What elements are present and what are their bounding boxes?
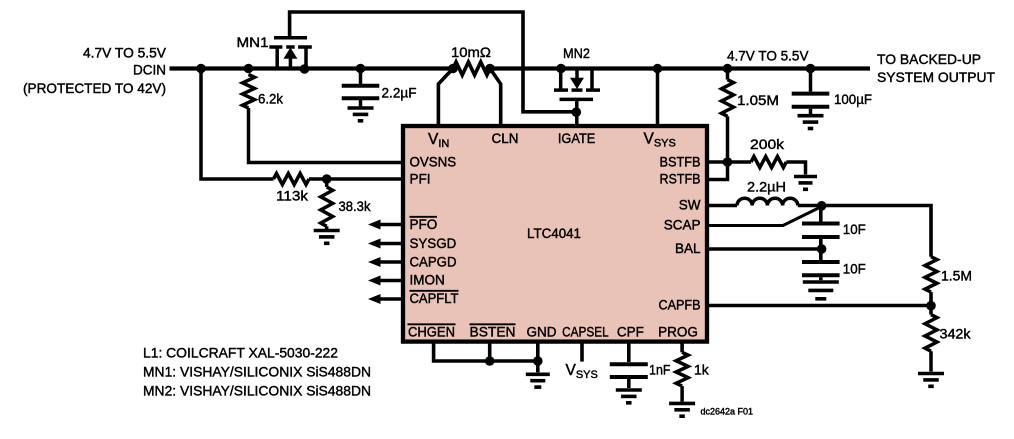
- wire BAL node to bottom 10F: [819, 249, 823, 260]
- wire 6.2k to OVSNS pin: [249, 108, 404, 163]
- svg-text:(PROTECTED TO 42V): (PROTECTED TO 42V): [23, 80, 166, 96]
- node junction MN2 gate IGATE: [572, 107, 582, 117]
- wire SCAP node to 1.5M: [822, 206, 931, 257]
- node junction sense right: [485, 64, 495, 74]
- wire 1nF to ground: [627, 379, 631, 388]
- wire CPF pin down: [627, 344, 631, 363]
- status output arrow CAPGD: [379, 260, 403, 264]
- wire dot to 38.3k: [325, 184, 329, 188]
- node junction BAL: [817, 244, 827, 254]
- ground below GND pin: [526, 374, 550, 387]
- node junction BSTEN-GND wire: [485, 356, 495, 366]
- svg-text:1k: 1k: [694, 362, 710, 378]
- resistor R 113k: [274, 174, 310, 185]
- svg-text:CAPFB: CAPFB: [659, 298, 701, 313]
- svg-text:SYSTEM OUTPUT: SYSTEM OUTPUT: [877, 69, 995, 85]
- svg-text:MN2: VISHAY/SILICONIX SiS488DN: MN2: VISHAY/SILICONIX SiS488DN: [143, 383, 371, 399]
- wire rail to 1.05M: [726, 69, 730, 80]
- svg-text:CHGEN: CHGEN: [408, 325, 455, 340]
- svg-text:2.2µH: 2.2µH: [747, 179, 786, 195]
- wire system output rail right segment: [490, 66, 870, 70]
- svg-text:10mΩ: 10mΩ: [451, 44, 491, 60]
- svg-text:IMON: IMON: [410, 273, 445, 288]
- svg-text:1nF: 1nF: [649, 362, 671, 378]
- wire kelvin sense to CLN pin: [490, 69, 501, 127]
- wire 1.5M to CAPFB node: [929, 292, 933, 305]
- wire 342k to ground: [929, 351, 933, 371]
- wire 38.3k to ground: [325, 226, 329, 229]
- wire 2.2uF to ground: [359, 100, 363, 107]
- node junction PFI divider mid: [322, 174, 332, 184]
- svg-text:GND: GND: [527, 325, 557, 340]
- svg-text:PFO: PFO: [410, 217, 438, 232]
- node junction 6.2k tap: [244, 64, 254, 74]
- node junction CAPFB: [926, 301, 936, 311]
- node junction 100uF tap: [806, 64, 816, 74]
- wire rail to VSYS pin: [656, 69, 660, 127]
- wire kelvin sense to VIN pin: [438, 69, 453, 127]
- wire BSTEN pin down: [488, 344, 492, 362]
- wire 1k to ground: [680, 386, 684, 401]
- svg-text:CAPSEL: CAPSEL: [562, 325, 609, 340]
- svg-text:113k: 113k: [276, 188, 309, 204]
- wire BSTFB pin to junction: [707, 160, 728, 164]
- capacitor C 1nF: [610, 364, 648, 377]
- wire bottom 10F to ground: [819, 277, 823, 280]
- svg-text:4.7V TO 5.5V: 4.7V TO 5.5V: [83, 45, 167, 61]
- svg-text:10F: 10F: [843, 261, 866, 277]
- status output arrow SYSGD: [379, 242, 403, 246]
- ground below 38.3k: [314, 231, 340, 244]
- node junction BSTFB: [723, 157, 733, 167]
- node junction PFI divider tap: [196, 64, 206, 74]
- ground after 200k: [794, 177, 817, 190]
- resistor R 1k: [676, 352, 688, 386]
- svg-text:CLN: CLN: [491, 131, 518, 146]
- svg-text:38.3k: 38.3k: [339, 198, 372, 214]
- transistor MN1 PMOS ideal diode: [269, 38, 311, 70]
- svg-text:MN1: VISHAY/SILICONIX SiS488DN: MN1: VISHAY/SILICONIX SiS488DN: [143, 364, 371, 380]
- wire 100uF to ground: [809, 109, 813, 114]
- svg-text:OVSNS: OVSNS: [410, 155, 457, 170]
- transistor MN2 PMOS backup switch: [554, 67, 600, 126]
- svg-text:100µF: 100µF: [834, 91, 872, 107]
- svg-text:RSTFB: RSTFB: [660, 172, 701, 187]
- wire rail to 2.2uF: [359, 69, 363, 85]
- wire SW pin to inductor: [707, 204, 737, 208]
- wire MN1 gate loop to IGATE: [290, 12, 574, 112]
- resistor R 342k: [925, 315, 937, 352]
- status output arrow CAPFLT: [379, 297, 403, 301]
- svg-text:PROG: PROG: [658, 325, 698, 340]
- svg-text:MN1: MN1: [237, 34, 269, 50]
- wire CAPFB pin to divider: [707, 304, 931, 308]
- resistor R 1.5M: [925, 257, 937, 292]
- wire DCIN rail left segment: [170, 66, 454, 70]
- capacitor C 100uF: [792, 94, 830, 107]
- node junction SCAP top: [817, 201, 827, 211]
- svg-text:342k: 342k: [940, 326, 972, 342]
- wire top 10F to BAL node: [819, 239, 823, 249]
- svg-text:2.2µF: 2.2µF: [382, 85, 417, 101]
- wire node to top 10F: [819, 206, 823, 222]
- svg-text:10F: 10F: [843, 221, 866, 237]
- svg-text:CPF: CPF: [617, 325, 644, 340]
- svg-text:1.05M: 1.05M: [737, 92, 779, 108]
- wire RSTFB to BSTFB junction: [707, 162, 728, 180]
- ground below 2.2uF: [348, 108, 374, 121]
- resistor R 200k: [751, 157, 786, 168]
- svg-text:PFI: PFI: [410, 172, 431, 187]
- node junction VSYS tap: [653, 64, 663, 74]
- wire CHGEN pin down and right: [434, 344, 538, 362]
- svg-text:200k: 200k: [750, 136, 785, 152]
- svg-text:VSYS: VSYS: [566, 362, 598, 381]
- svg-text:LTC4041: LTC4041: [527, 225, 581, 241]
- wire 113k to PFI pin: [309, 177, 403, 181]
- resistor R 1.05M: [722, 80, 734, 117]
- capacitor C 10F bottom: [802, 262, 840, 275]
- op-amp-style IC body LTC4041 U1: [403, 126, 707, 342]
- svg-text:SW: SW: [679, 198, 701, 213]
- wire PROG pin down: [680, 344, 684, 353]
- wire GND pin down: [536, 344, 540, 373]
- wire CAPSEL pin down: [580, 344, 584, 362]
- svg-text:BAL: BAL: [675, 241, 701, 256]
- node junction GND wire: [533, 356, 543, 366]
- svg-text:SYSGD: SYSGD: [410, 236, 457, 251]
- svg-text:1.5M: 1.5M: [941, 268, 972, 284]
- capacitor C 2.2uF: [342, 86, 380, 99]
- svg-text:CAPFLT: CAPFLT: [410, 291, 459, 306]
- ground below 342k: [918, 374, 944, 387]
- svg-text:CAPGD: CAPGD: [410, 255, 457, 270]
- svg-text:L1: COILCRAFT XAL-5030-222: L1: COILCRAFT XAL-5030-222: [143, 345, 338, 361]
- wire CAPFB node to 342k: [929, 306, 933, 315]
- node junction MN1 right terminal: [300, 64, 310, 74]
- svg-text:IGATE: IGATE: [558, 131, 596, 146]
- status output arrow PFO: [379, 223, 403, 227]
- wire 200k to ground: [786, 162, 805, 175]
- resistor R 6.2k: [243, 75, 255, 109]
- status output arrow IMON: [379, 279, 403, 283]
- ground below 100uF: [798, 116, 824, 129]
- inductor L1 2.2uH: [737, 198, 798, 205]
- resistor R 38.3k: [321, 187, 333, 226]
- wire junction to 200k: [728, 160, 752, 164]
- wire inductor to SCAP node: [798, 204, 822, 208]
- resistor Rsense 10mOhm: [453, 62, 490, 75]
- wire 1.05M to BSTFB: [726, 116, 730, 162]
- svg-text:BSTFB: BSTFB: [660, 155, 701, 170]
- svg-text:4.7V TO 5.5V: 4.7V TO 5.5V: [727, 47, 809, 63]
- node junction sense left: [448, 64, 458, 74]
- wire rail to 113k: [201, 69, 274, 180]
- wire BAL pin to node: [707, 247, 818, 251]
- svg-text:BSTEN: BSTEN: [470, 325, 516, 340]
- svg-text:SCAP: SCAP: [664, 218, 701, 233]
- ground below 1k: [669, 403, 695, 416]
- ground below bottom 10F: [803, 282, 839, 299]
- svg-text:6.2k: 6.2k: [258, 91, 284, 107]
- node junction 1.05M tap: [723, 64, 733, 74]
- svg-text:DCIN: DCIN: [133, 62, 166, 78]
- svg-text:TO BACKED-UP: TO BACKED-UP: [877, 51, 981, 67]
- node junction 2.2uF tap: [356, 64, 366, 74]
- wire rail to 100uF: [809, 69, 813, 92]
- svg-text:dc2642a F01: dc2642a F01: [701, 407, 754, 417]
- svg-text:MN2: MN2: [563, 45, 590, 61]
- ground below 1nF: [616, 390, 642, 403]
- wire SCAP pin diagonal to SCAP node: [707, 207, 822, 226]
- capacitor C 10F top: [802, 224, 840, 238]
- node junction MN2 left terminal: [556, 64, 566, 74]
